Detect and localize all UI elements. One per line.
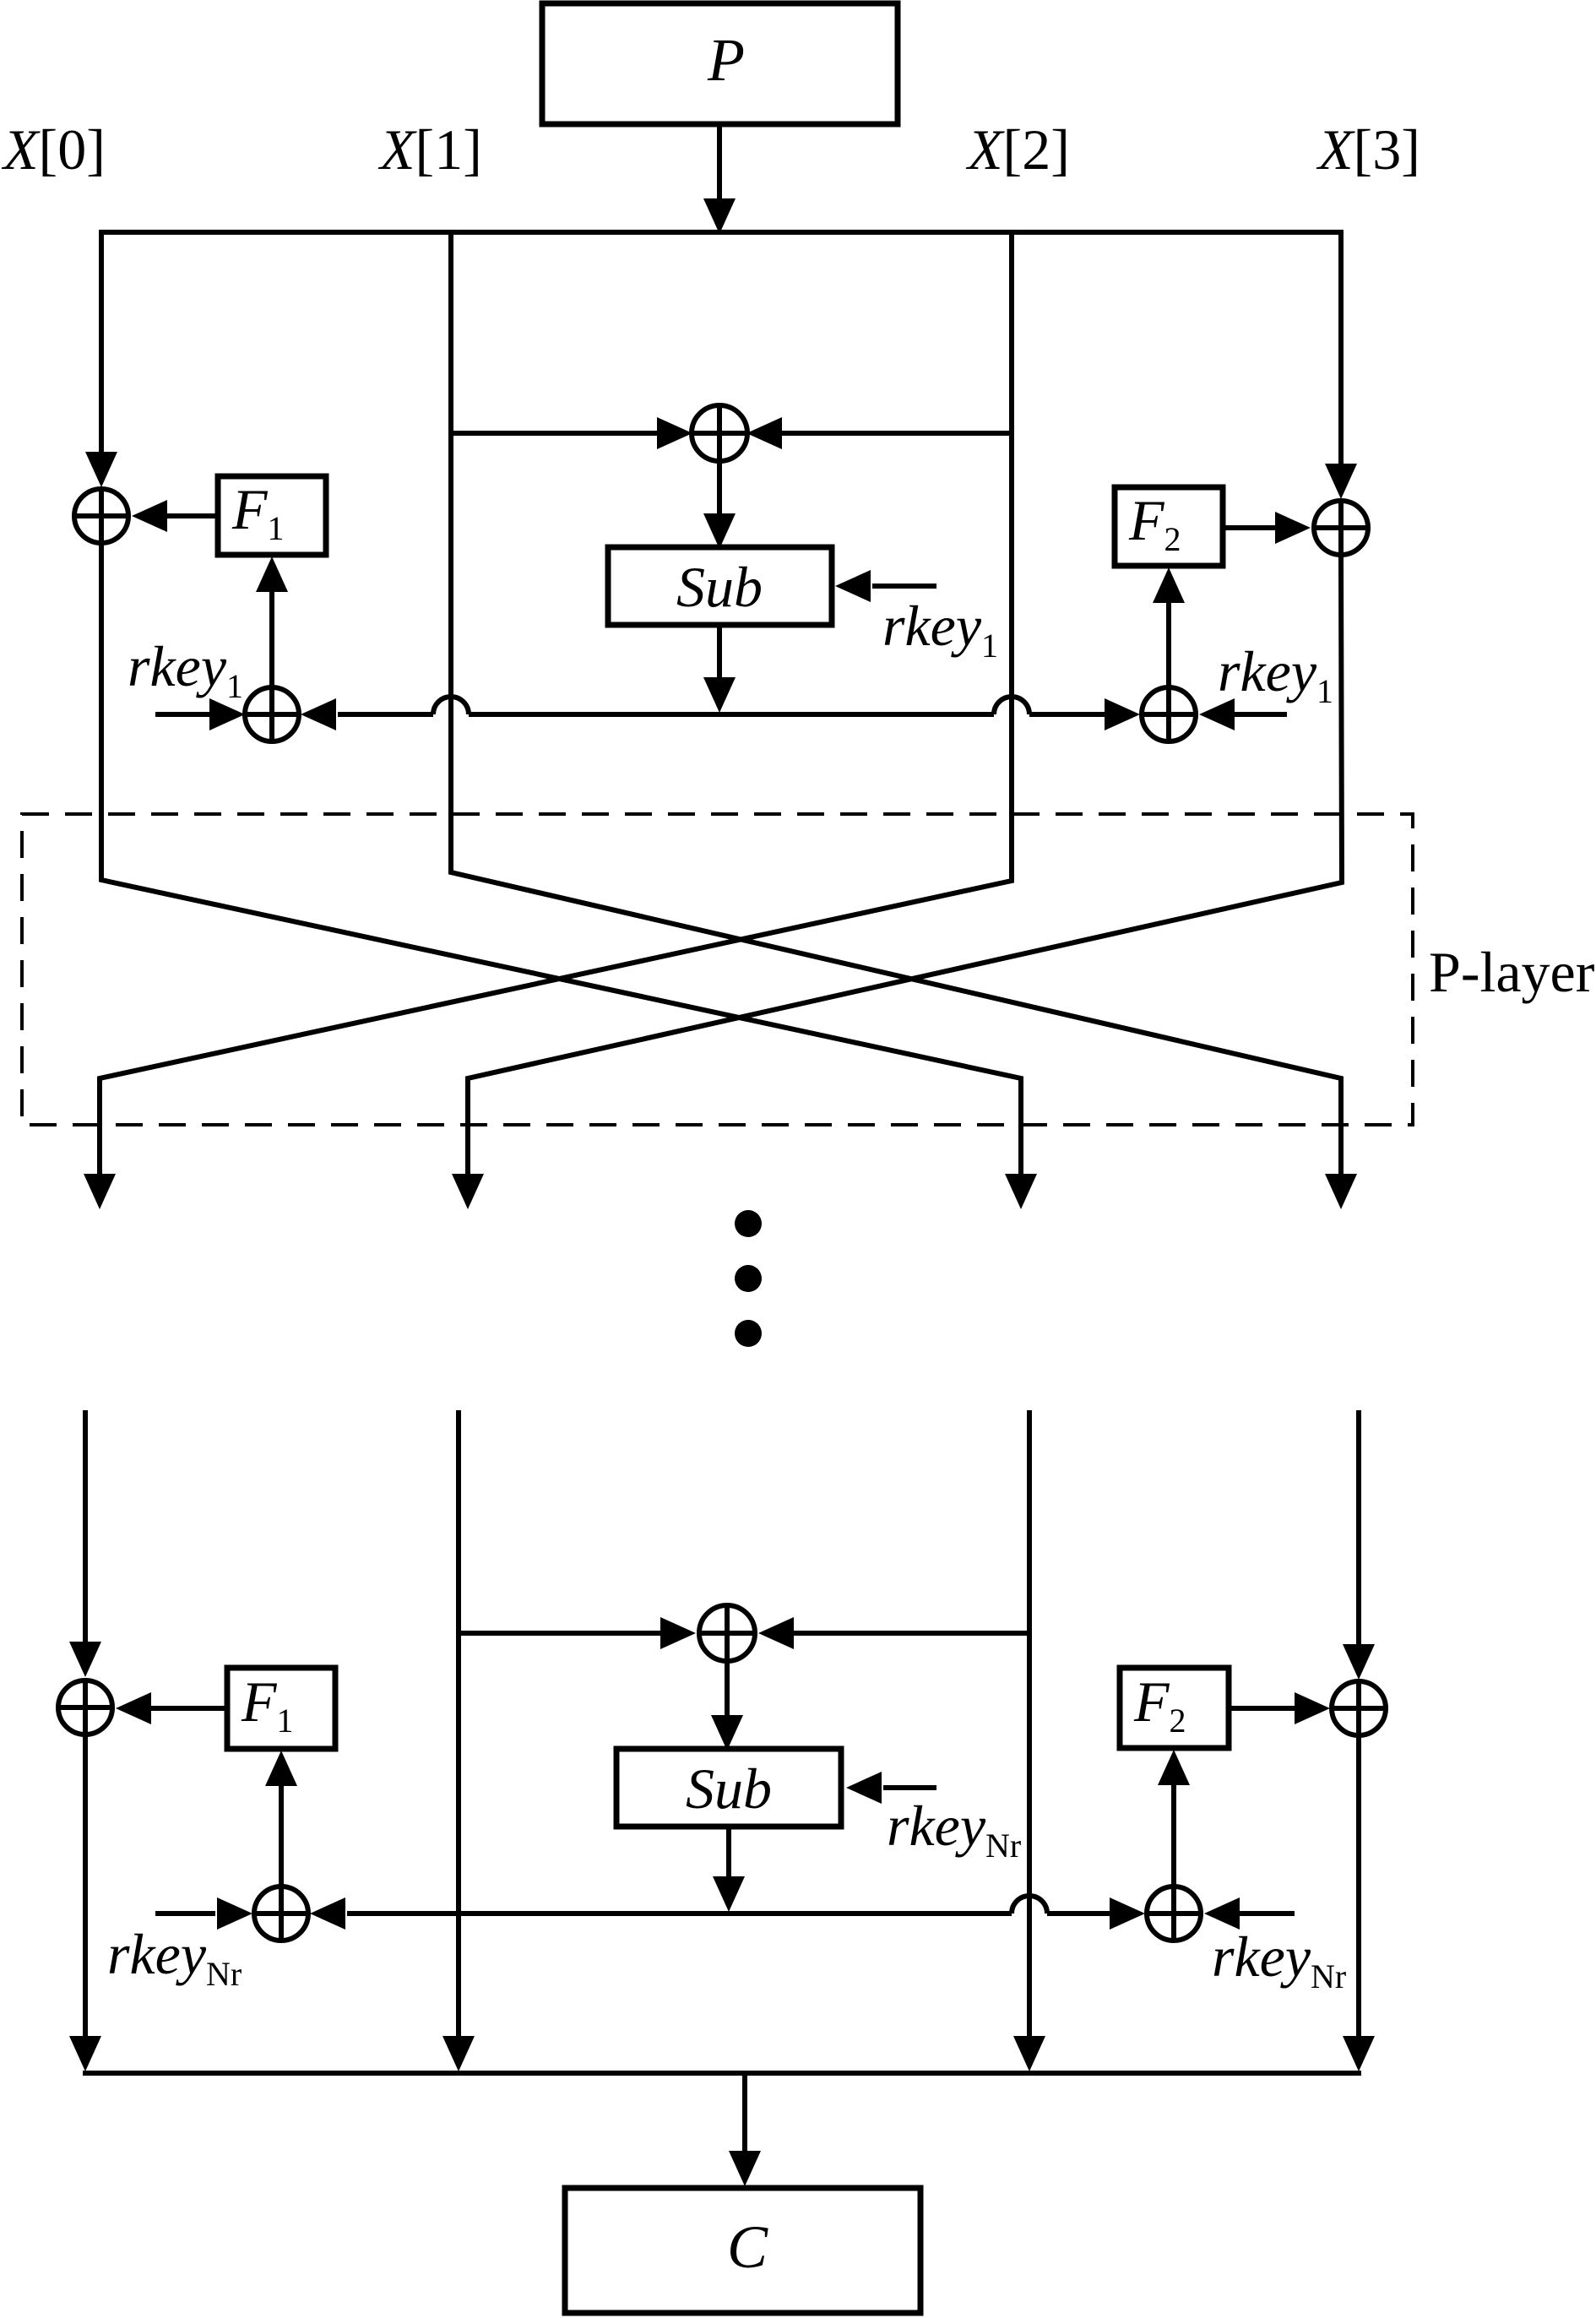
box F2 round1 <box>1115 487 1223 566</box>
svg-text:P: P <box>707 26 745 94</box>
svg-text:rkeyNr: rkeyNr <box>887 1794 1021 1865</box>
svg-text:rkey1: rkey1 <box>128 634 243 705</box>
wire X1 to P-layer (crosses to position 3) <box>451 230 1341 1175</box>
svg-text:rkey1: rkey1 <box>882 594 998 665</box>
box P <box>542 3 898 124</box>
xor rkey left round1 <box>245 687 299 741</box>
wire top bus <box>99 230 1344 235</box>
wire X3 round Nr lower <box>1343 1737 1375 2071</box>
svg-text:Sub: Sub <box>676 555 763 619</box>
svg-text:rkey1: rkey1 <box>1218 639 1333 710</box>
wire X2 round Nr <box>1013 1410 1045 2071</box>
box F2 round Nr <box>1120 1668 1229 1748</box>
xor rkey right round1 <box>1142 687 1196 741</box>
wire xor to F2 round1 <box>1153 567 1185 686</box>
box C <box>565 2188 920 2313</box>
wire X0 round Nr lower <box>69 1736 101 2071</box>
wire middle mix row round1 <box>451 417 1012 449</box>
P-layer dashed box <box>22 814 1413 1125</box>
wire xor to Sub round1 <box>703 463 736 549</box>
xor middle round Nr <box>699 1605 755 1661</box>
wire X1 round Nr <box>442 1410 475 2071</box>
svg-text:rkeyNr: rkeyNr <box>107 1922 242 1993</box>
wire X0 to P-layer (crosses to position 2) <box>101 545 1021 1175</box>
wire X0 branch down <box>85 230 117 487</box>
svg-text:X[1]: X[1] <box>377 117 482 182</box>
wire Sub output round Nr <box>713 1827 745 1912</box>
xor X3 round1 <box>1314 501 1368 555</box>
wire xor to Sub round Nr <box>711 1663 743 1751</box>
svg-text:P-layer: P-layer <box>1429 940 1595 1004</box>
xor rkey left round Nr <box>254 1886 308 1941</box>
wire bus to C <box>729 2073 761 2186</box>
wire F2 to xor X3 round Nr <box>1229 1692 1330 1724</box>
wire F1 to xor X0 round Nr <box>116 1692 227 1724</box>
wire xor to F1 round1 <box>256 556 288 686</box>
svg-text:X[0]: X[0] <box>1 117 106 182</box>
wire X3 round Nr upper <box>1343 1410 1375 1680</box>
xor X0 round1 <box>74 489 128 543</box>
wire xor to F1 round Nr <box>265 1751 297 1885</box>
svg-text:C: C <box>727 2213 768 2281</box>
wire X2 to P-layer (crosses to position 0) <box>100 230 1012 1175</box>
wire F2 to xor X3 <box>1223 512 1311 544</box>
wire X3 to P-layer (crosses to position 1) <box>468 556 1342 1175</box>
wire rkeyNr into Sub <box>846 1772 936 1804</box>
wire rkey row round Nr <box>155 1896 1295 1930</box>
wire X0 round Nr upper <box>69 1410 101 1677</box>
dots ellipsis <box>735 1210 762 1347</box>
wire X3 branch down <box>1325 230 1357 499</box>
wire xor to F2 round Nr <box>1158 1750 1190 1885</box>
svg-text:rkeyNr: rkeyNr <box>1212 1924 1346 1995</box>
svg-text:X[2]: X[2] <box>965 117 1070 182</box>
wire rkey row round1 <box>155 697 1287 730</box>
wire bottom bus <box>83 2071 1361 2076</box>
wire rkey1 into Sub <box>835 570 936 602</box>
box Sub round Nr <box>616 1749 841 1827</box>
svg-text:Sub: Sub <box>686 1756 772 1821</box>
xor rkey right round Nr <box>1147 1886 1201 1941</box>
wire Sub output round1 <box>703 625 736 713</box>
box F1 round Nr <box>227 1668 335 1749</box>
xor middle round1 <box>692 405 747 461</box>
xor X3 round Nr <box>1332 1681 1386 1735</box>
box Sub round1 <box>608 547 832 625</box>
box F1 round1 <box>218 476 326 555</box>
wire F1 to xor X0 <box>132 500 218 532</box>
wire middle mix row round Nr <box>459 1617 1029 1649</box>
xor X0 round Nr <box>58 1680 112 1734</box>
svg-text:X[3]: X[3] <box>1316 117 1420 182</box>
wire P to bus <box>703 124 736 234</box>
